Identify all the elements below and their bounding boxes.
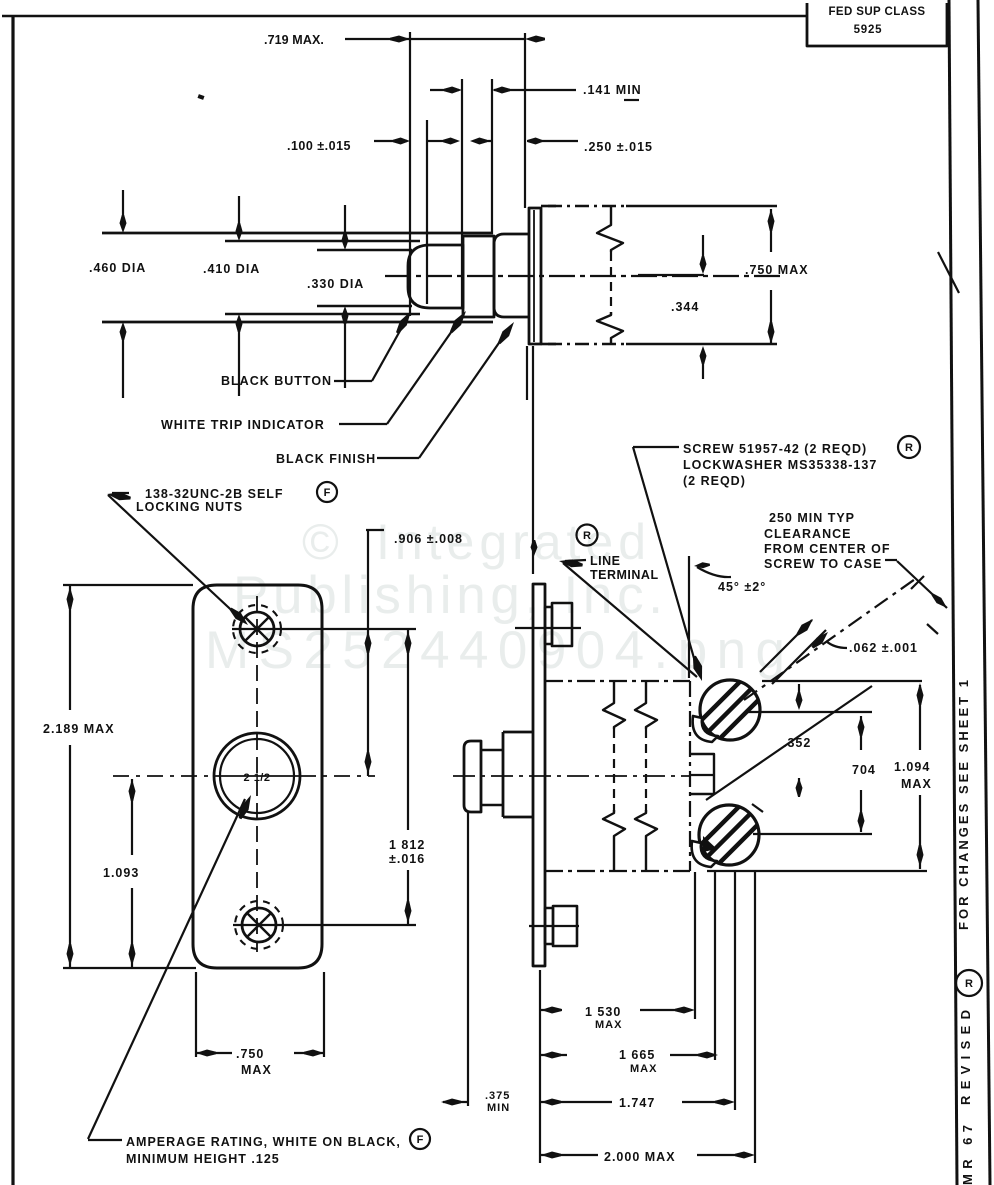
svg-text:.719 MAX.: .719 MAX. xyxy=(264,33,324,47)
revision circle R upper xyxy=(898,436,920,458)
svg-text:MAX: MAX xyxy=(241,1063,272,1077)
dimension .250 +-.015 xyxy=(527,140,578,142)
svg-text:1.747: 1.747 xyxy=(619,1096,655,1110)
svg-text:(2 REQD): (2 REQD) xyxy=(683,474,746,488)
case right edge xyxy=(689,681,691,871)
stray mark dot xyxy=(197,94,204,100)
svg-text:R: R xyxy=(583,530,591,542)
dimension .906 +-.008 xyxy=(368,530,384,776)
dimension 1.530 MAX xyxy=(541,1007,561,1014)
panel bottom extension lines for .750 xyxy=(195,972,197,1057)
svg-text:SCREW TO CASE: SCREW TO CASE xyxy=(764,557,882,571)
svg-text:LOCKING NUTS: LOCKING NUTS xyxy=(136,500,243,514)
label AMPERAGE RATING xyxy=(88,1139,122,1141)
shaft .330 dia outline xyxy=(317,249,412,252)
top screw center extension xyxy=(747,711,872,713)
extension line x462 xyxy=(461,79,463,307)
dimension 1.747 xyxy=(541,1099,561,1106)
extension line panel plate down xyxy=(539,970,541,1163)
svg-text:1 665: 1 665 xyxy=(619,1048,655,1062)
svg-text:.344: .344 xyxy=(671,300,699,314)
top mounting hole xyxy=(240,612,274,646)
case bottom extension right xyxy=(707,870,927,872)
svg-text:1 812: 1 812 xyxy=(389,838,425,852)
extension line screw washer down 2 xyxy=(734,872,736,1110)
svg-text:MAX: MAX xyxy=(630,1063,657,1075)
button body block xyxy=(503,732,533,817)
top terminal lug hook xyxy=(693,716,718,742)
vertical link line from flange to panel plate xyxy=(532,346,534,574)
svg-text:704: 704 xyxy=(852,763,876,777)
button cap side xyxy=(464,741,481,812)
label LINE TERMINAL xyxy=(559,559,583,567)
svg-text:©: © xyxy=(302,514,339,570)
case top extension right xyxy=(762,680,922,682)
panel bottom edge extension xyxy=(63,967,196,969)
FED SUP CLASS box xyxy=(807,3,947,46)
svg-text:MAX: MAX xyxy=(901,777,932,791)
svg-text:.410 DIA: .410 DIA xyxy=(203,262,260,276)
button neck xyxy=(481,750,503,805)
stray mark diagonal near right border xyxy=(938,252,959,293)
dimension 1.812 +-.016 xyxy=(407,629,409,830)
note circle F bottom xyxy=(410,1129,430,1149)
svg-text:R: R xyxy=(965,978,973,990)
mounting flange plate xyxy=(529,208,541,344)
dimension 1.093 xyxy=(131,779,133,855)
extension line x427 xyxy=(426,120,428,304)
svg-text:TERMINAL: TERMINAL xyxy=(590,568,659,582)
case top edge xyxy=(545,680,690,682)
svg-text:F: F xyxy=(324,487,331,499)
leader LINE TERMINAL to screw xyxy=(563,563,697,677)
extension line x410 xyxy=(409,32,411,316)
stray mark dash xyxy=(624,99,639,101)
case bottom edge xyxy=(545,870,690,872)
extension line x527 below flange xyxy=(526,346,528,400)
svg-text:.750: .750 xyxy=(236,1047,264,1061)
sheet border right outer xyxy=(978,0,990,1185)
svg-text:WHITE TRIP INDICATOR: WHITE TRIP INDICATOR xyxy=(161,418,325,432)
bottom screw center extension xyxy=(753,833,872,835)
revision strip circle R xyxy=(956,970,982,996)
body break line zigzag xyxy=(597,206,623,252)
svg-text:±.016: ±.016 xyxy=(389,852,425,866)
dimension .704 xyxy=(860,716,862,750)
extension line button front xyxy=(467,812,469,1106)
extension line screw end down xyxy=(754,872,756,1163)
long diagonal reference line xyxy=(706,686,872,800)
panel horizontal centerline xyxy=(113,775,214,777)
dimension 1.665 MAX xyxy=(541,1052,561,1059)
button cap capsule xyxy=(408,245,463,308)
panel front view rounded rectangle xyxy=(193,585,322,968)
svg-text:BLACK FINISH: BLACK FINISH xyxy=(276,452,376,466)
top view centerline xyxy=(385,275,782,277)
svg-text:1.093: 1.093 xyxy=(103,866,139,880)
lower view centerline xyxy=(453,775,690,777)
svg-text:MINIMUM HEIGHT .125: MINIMUM HEIGHT .125 xyxy=(126,1152,280,1166)
panel plate side view xyxy=(533,584,545,966)
body rectangle bottom edge xyxy=(541,343,556,346)
svg-text:.460 DIA: .460 DIA xyxy=(89,261,146,275)
dimension .750 MAX bottom xyxy=(196,1052,232,1054)
dimension 2.189 MAX xyxy=(69,585,71,710)
svg-text:.141 MIN: .141 MIN xyxy=(583,83,642,97)
svg-text:2.000 MAX: 2.000 MAX xyxy=(604,1150,676,1164)
central hole inner circle xyxy=(220,739,294,813)
svg-text:BLACK BUTTON: BLACK BUTTON xyxy=(221,374,332,388)
note circle F xyxy=(317,482,337,502)
svg-text:2.189 MAX: 2.189 MAX xyxy=(43,722,115,736)
dimension .141 MIN xyxy=(430,89,459,91)
dimension 1.094 MAX xyxy=(919,685,921,750)
small arrow on link line xyxy=(531,540,538,556)
svg-text:.250 ±.015: .250 ±.015 xyxy=(584,140,653,154)
dimension .375 MIN xyxy=(441,1099,461,1106)
svg-text:45° ±2°: 45° ±2° xyxy=(718,580,766,594)
bushing rounded block xyxy=(494,234,529,317)
panel top edge extension xyxy=(63,584,193,586)
sheet border top xyxy=(2,15,807,18)
svg-text:F: F xyxy=(417,1134,424,1146)
dimension 2.000 MAX xyxy=(541,1152,561,1159)
bottom terminal lug hook xyxy=(692,841,717,867)
central hole outer circle xyxy=(214,733,300,819)
dimension .062 +-.001 xyxy=(760,620,812,672)
45 degree note xyxy=(688,556,690,678)
dimension .750 MAX vertical xyxy=(770,209,772,252)
dimension .352 xyxy=(798,684,800,704)
svg-text:1.094: 1.094 xyxy=(894,760,930,774)
shaft .410 dia outline xyxy=(225,240,420,243)
case break line right xyxy=(635,681,657,729)
svg-text:138-32UNC-2B SELF: 138-32UNC-2B SELF xyxy=(145,487,284,501)
revision circle R mid xyxy=(577,525,598,546)
extension line x525 xyxy=(524,33,526,208)
clearance dimension diagonal xyxy=(897,561,947,608)
bottom hole extension line xyxy=(285,924,416,926)
extension line case right down xyxy=(694,872,696,1019)
svg-text:FOR CHANGES SEE SHEET 1: FOR CHANGES SEE SHEET 1 xyxy=(956,680,971,930)
svg-text:MIN: MIN xyxy=(487,1102,510,1114)
svg-text:CLEARANCE: CLEARANCE xyxy=(764,527,851,541)
middle terminal stud xyxy=(690,754,714,794)
body rectangle top edge xyxy=(541,205,556,208)
svg-text:.062 ±.001: .062 ±.001 xyxy=(849,641,918,655)
svg-text:R: R xyxy=(905,442,913,454)
case break line left xyxy=(603,681,625,729)
extension line screw washer down 1 xyxy=(714,872,716,1060)
sheet border right inner xyxy=(949,0,957,1185)
trip indicator step block xyxy=(463,236,494,317)
svg-text:MAX: MAX xyxy=(595,1019,622,1031)
svg-text:.906 ±.008: .906 ±.008 xyxy=(394,532,463,546)
svg-text:FED SUP CLASS: FED SUP CLASS xyxy=(828,6,925,18)
svg-text:.100 ±.015: .100 ±.015 xyxy=(287,139,351,153)
extension line x492 xyxy=(491,79,493,234)
panel vertical centerline xyxy=(256,596,258,952)
shaft .460 dia outline xyxy=(102,232,493,235)
svg-text:1 530: 1 530 xyxy=(585,1005,621,1019)
screw axis dash-dot line xyxy=(744,577,918,700)
sheet border left xyxy=(11,15,14,1185)
bottom self-locking nut xyxy=(545,908,553,944)
svg-text:.330 DIA: .330 DIA xyxy=(307,277,364,291)
svg-text:FROM CENTER OF: FROM CENTER OF xyxy=(764,542,891,556)
svg-text:5925: 5925 xyxy=(854,24,883,36)
bottom mounting hole xyxy=(242,908,276,942)
leader to top mounting hole xyxy=(108,495,242,620)
svg-text:2 1/2: 2 1/2 xyxy=(244,772,271,784)
svg-text:SCREW 51957-42 (2 REQD): SCREW 51957-42 (2 REQD) xyxy=(683,442,867,456)
svg-text:.750 MAX: .750 MAX xyxy=(745,263,809,277)
dimension .344 xyxy=(702,235,704,268)
svg-text:LINE: LINE xyxy=(590,554,620,568)
svg-text:250 MIN TYP: 250 MIN TYP xyxy=(769,511,855,525)
top hole extension line xyxy=(284,628,416,630)
svg-text:AMPERAGE RATING, WHITE ON BLAC: AMPERAGE RATING, WHITE ON BLACK, xyxy=(126,1135,401,1149)
svg-text:LOCKWASHER MS35338-137: LOCKWASHER MS35338-137 xyxy=(683,458,877,472)
svg-text:.375: .375 xyxy=(485,1090,510,1102)
top self-locking nut xyxy=(545,607,552,644)
